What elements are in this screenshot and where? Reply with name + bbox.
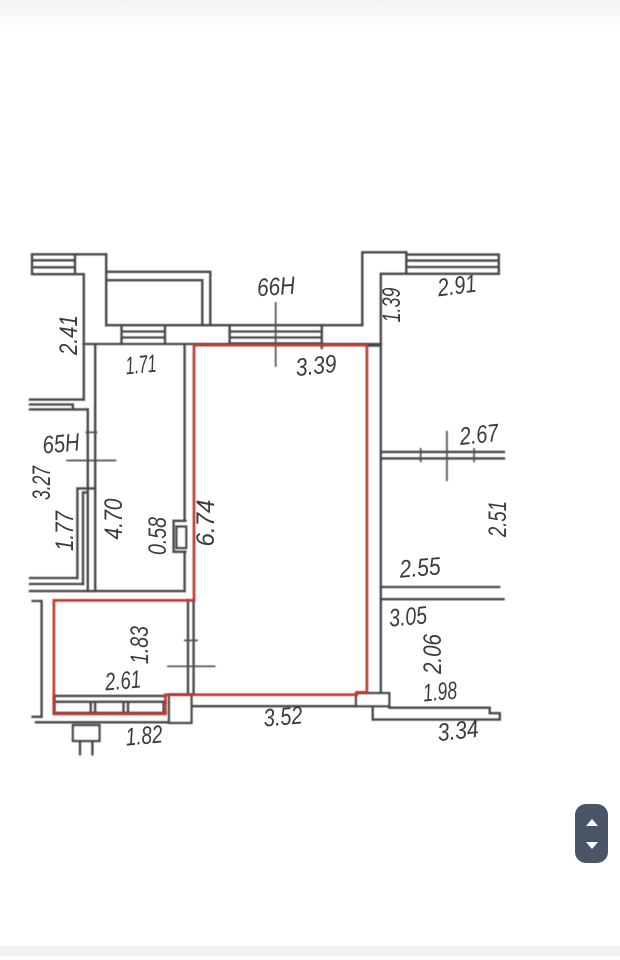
svg-text:6.74: 6.74: [192, 500, 220, 547]
svg-text:0.58: 0.58: [144, 517, 172, 555]
pillar bottom-left junction: [169, 695, 192, 723]
wall balcony left bracket: [33, 601, 42, 717]
svg-text:3.05: 3.05: [388, 601, 428, 632]
chimney box: [73, 725, 100, 741]
wall left of room 1.71 upper: [83, 274, 85, 399]
wall below windows (main top wall): [84, 343, 381, 345]
wall right rooms divider upper: [381, 452, 504, 459]
svg-text:66H: 66H: [256, 272, 297, 303]
svg-text:3.27: 3.27: [28, 465, 56, 500]
window 66H hatch: [230, 325, 322, 348]
dimension leader balcony 1.83: [168, 665, 215, 667]
svg-text:2.55: 2.55: [398, 552, 442, 584]
wall top-right corner step: [362, 252, 406, 324]
wall below balcony window outer: [36, 721, 169, 723]
window top-right hatch: [406, 252, 499, 273]
window above room 1.71: [122, 325, 166, 344]
dimension leader 66H: [275, 303, 277, 366]
wall bottom-left nested lines: [30, 578, 185, 591]
wall top of 66H window line: [106, 324, 362, 326]
wall balcony 66H left double: [106, 272, 210, 325]
wall right of room 4.70 with niche gap: [183, 344, 185, 591]
svg-text:2.41: 2.41: [55, 315, 83, 356]
wall main right vertical: [380, 274, 382, 693]
scroll spinner widget: [575, 804, 608, 863]
wall connector at red top-right corner: [367, 344, 381, 346]
wall balcony divider double: [188, 600, 194, 693]
chimney legs: [80, 741, 92, 754]
svg-text:1.77: 1.77: [51, 510, 79, 551]
wall below top-right window: [383, 273, 499, 275]
svg-text:4.70: 4.70: [100, 498, 128, 539]
niche 0.58 outline: [174, 521, 186, 552]
niche 0.58 leaf: [177, 527, 187, 548]
svg-text:2.67: 2.67: [457, 419, 500, 451]
svg-text:1.71: 1.71: [124, 350, 157, 381]
svg-text:65H: 65H: [41, 428, 81, 459]
dimension leader 65H: [67, 460, 115, 462]
window balcony bottom: [54, 696, 165, 713]
svg-text:2.51: 2.51: [484, 501, 512, 538]
wall bottom of main room: [192, 705, 357, 707]
wall 65H left glazing: [30, 400, 88, 410]
svg-text:2.61: 2.61: [103, 665, 142, 696]
svg-text:1.39: 1.39: [378, 287, 406, 322]
svg-text:2.91: 2.91: [435, 270, 478, 303]
svg-text:1.98: 1.98: [422, 677, 458, 708]
svg-text:3.39: 3.39: [294, 350, 338, 382]
svg-text:2.06: 2.06: [419, 634, 447, 675]
svg-text:3.52: 3.52: [262, 701, 303, 732]
dimension leader 2.67: [446, 432, 448, 481]
dimension tick 65H wall: [86, 431, 96, 433]
pillar bottom-right junction: [356, 693, 389, 706]
shaft 1.77: [77, 488, 95, 584]
wall top-left outer vertical: [105, 254, 107, 325]
window top-left hatch: [32, 254, 106, 274]
wall bottom-right step: [373, 706, 500, 719]
dimension tick balcony wall: [185, 639, 197, 641]
svg-text:1.83: 1.83: [126, 626, 154, 664]
bottom gray strip: [0, 946, 620, 956]
svg-text:1.82: 1.82: [124, 720, 163, 751]
wall 65H double vertical: [88, 344, 95, 591]
red apartment outline: [54, 345, 367, 714]
top gradient band: [0, 0, 620, 30]
svg-text:3.34: 3.34: [436, 715, 480, 747]
wall right rooms divider lower: [381, 587, 504, 599]
dimension ticks wall 2.67: [421, 449, 474, 462]
